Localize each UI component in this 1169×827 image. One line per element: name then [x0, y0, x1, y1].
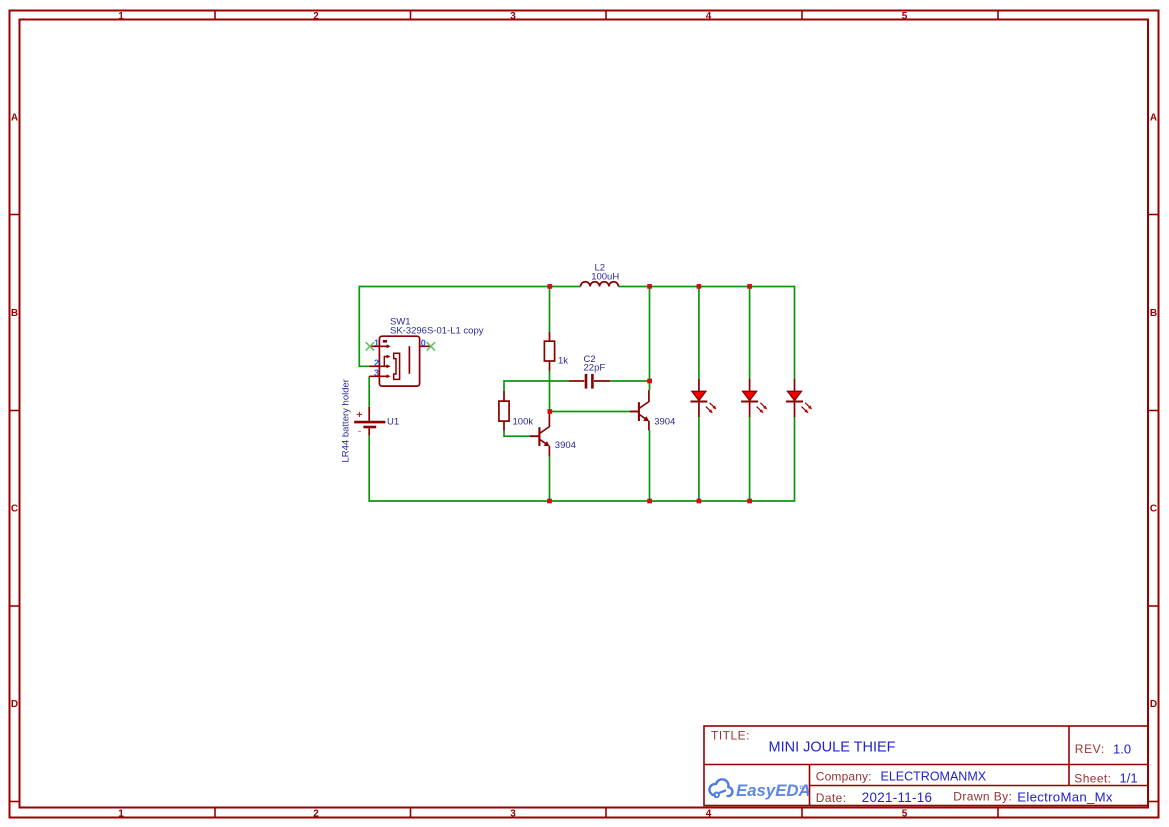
- svg-text:C: C: [11, 504, 18, 515]
- switch SW1: [366, 316, 484, 386]
- junction Q1 emitter / bottom rail: [547, 499, 552, 504]
- junction Q2 collector branch / top rail: [647, 284, 652, 289]
- svg-text:2: 2: [313, 11, 319, 22]
- title block text: [711, 728, 1138, 805]
- svg-text:100k: 100k: [513, 417, 534, 428]
- svg-text:1/1: 1/1: [1120, 770, 1138, 785]
- wire capacitor row right: [610, 380, 649, 382]
- junction LED2 anode / top rail: [747, 284, 752, 289]
- svg-text:2: 2: [313, 808, 319, 819]
- wire LED1 column: [698, 287, 700, 502]
- svg-text:Drawn By:: Drawn By:: [953, 789, 1012, 803]
- junction Q2 emitter / bottom rail: [647, 499, 652, 504]
- svg-text:+: +: [356, 409, 362, 421]
- svg-text:U1: U1: [387, 417, 399, 428]
- wire battery to switch pin3: [368, 376, 370, 407]
- wire 1k bottom to node: [549, 371, 551, 412]
- svg-text:5: 5: [902, 808, 908, 819]
- svg-text:SK-3296S-01-L1 copy: SK-3296S-01-L1 copy: [390, 325, 484, 336]
- junction LED1 cathode / bottom rail: [697, 499, 702, 504]
- resistor 100k: [499, 391, 533, 430]
- svg-text:A: A: [1150, 113, 1157, 124]
- no-connect X pin1: [366, 342, 374, 350]
- svg-text:Sheet:: Sheet:: [1074, 771, 1111, 785]
- wire top rail right: [618, 287, 794, 380]
- svg-text:B: B: [11, 308, 18, 319]
- capacitor C2 22pF: [569, 354, 610, 389]
- inductor L2: [581, 262, 620, 286]
- svg-text:3: 3: [374, 368, 379, 378]
- pin 3: [369, 375, 388, 377]
- svg-text:2021-11-16: 2021-11-16: [862, 790, 933, 805]
- EasyEDA logo text: [736, 781, 811, 800]
- EasyEDA logo cloud: [709, 779, 732, 797]
- svg-text:1: 1: [374, 338, 379, 348]
- svg-text:0: 0: [421, 338, 426, 348]
- svg-text:22pF: 22pF: [584, 363, 606, 374]
- pin 1: [369, 345, 388, 347]
- wire Q1 emitter to bottom rail: [549, 456, 551, 501]
- svg-text:REV:: REV:: [1075, 742, 1105, 756]
- wire 1k top: [549, 287, 551, 333]
- wire capacitor row left: [504, 381, 569, 391]
- svg-text:A: A: [11, 113, 18, 124]
- wire top rail left: [359, 287, 580, 367]
- svg-text:1: 1: [118, 11, 124, 22]
- svg-text:4: 4: [706, 808, 712, 819]
- svg-text:B: B: [1150, 308, 1157, 319]
- title block border: [704, 726, 1148, 806]
- svg-text:ELECTROMANMX: ELECTROMANMX: [881, 770, 987, 784]
- svg-text:-: -: [358, 425, 362, 437]
- svg-text:MINI JOULE THIEF: MINI JOULE THIEF: [769, 740, 896, 756]
- svg-text:EasyEDA: EasyEDA: [736, 781, 811, 800]
- svg-text:ElectroMan_Mx: ElectroMan_Mx: [1017, 789, 1113, 804]
- svg-text:3: 3: [510, 11, 516, 22]
- junction 1k top / top rail: [547, 284, 552, 289]
- svg-text:3904: 3904: [555, 440, 576, 451]
- junction node 1k bottom / Q1 collector / Q2 base: [547, 409, 552, 414]
- svg-text:Date:: Date:: [816, 791, 847, 805]
- battery U1: [341, 379, 400, 462]
- svg-text:D: D: [11, 699, 18, 710]
- junction LED2 cathode / bottom rail: [747, 499, 752, 504]
- svg-text:1: 1: [118, 808, 124, 819]
- wire Q2 collector drop: [649, 381, 651, 390]
- LED D2: [741, 379, 767, 417]
- wire node to Q2 base: [550, 411, 630, 413]
- svg-text:Company:: Company:: [816, 770, 872, 784]
- junction C2 right / Q2 collector column: [647, 379, 652, 384]
- LED D3: [786, 379, 812, 417]
- svg-text:100uH: 100uH: [591, 272, 619, 283]
- no-connect X pin0: [427, 342, 435, 350]
- wire bottom rail: [369, 417, 794, 501]
- svg-text:LR44 battery holder: LR44 battery holder: [341, 379, 352, 462]
- svg-text:3: 3: [510, 808, 516, 819]
- wire Q2 emitter to bottom rail: [649, 430, 651, 501]
- svg-text:1.0: 1.0: [1113, 741, 1131, 756]
- wire Q2 collector to top rail: [649, 287, 651, 382]
- svg-text:1k: 1k: [558, 355, 568, 366]
- svg-text:C: C: [1150, 504, 1157, 515]
- wire 100k bottom to Q1 base: [504, 430, 530, 436]
- svg-text:3904: 3904: [654, 417, 675, 428]
- svg-text:4: 4: [706, 11, 712, 22]
- transistor Q2 3904: [630, 390, 676, 430]
- LED D1: [690, 379, 716, 417]
- pin 0: [420, 345, 431, 347]
- wire LED2 column: [749, 287, 751, 502]
- svg-text:TITLE:: TITLE:: [711, 728, 750, 742]
- transistor Q1 3904: [530, 412, 576, 457]
- svg-text:D: D: [1150, 699, 1157, 710]
- svg-text:2: 2: [374, 358, 379, 368]
- resistor 1k: [544, 332, 568, 371]
- svg-text:5: 5: [902, 11, 908, 22]
- junction LED1 anode / top rail: [697, 284, 702, 289]
- pin 2: [369, 365, 388, 367]
